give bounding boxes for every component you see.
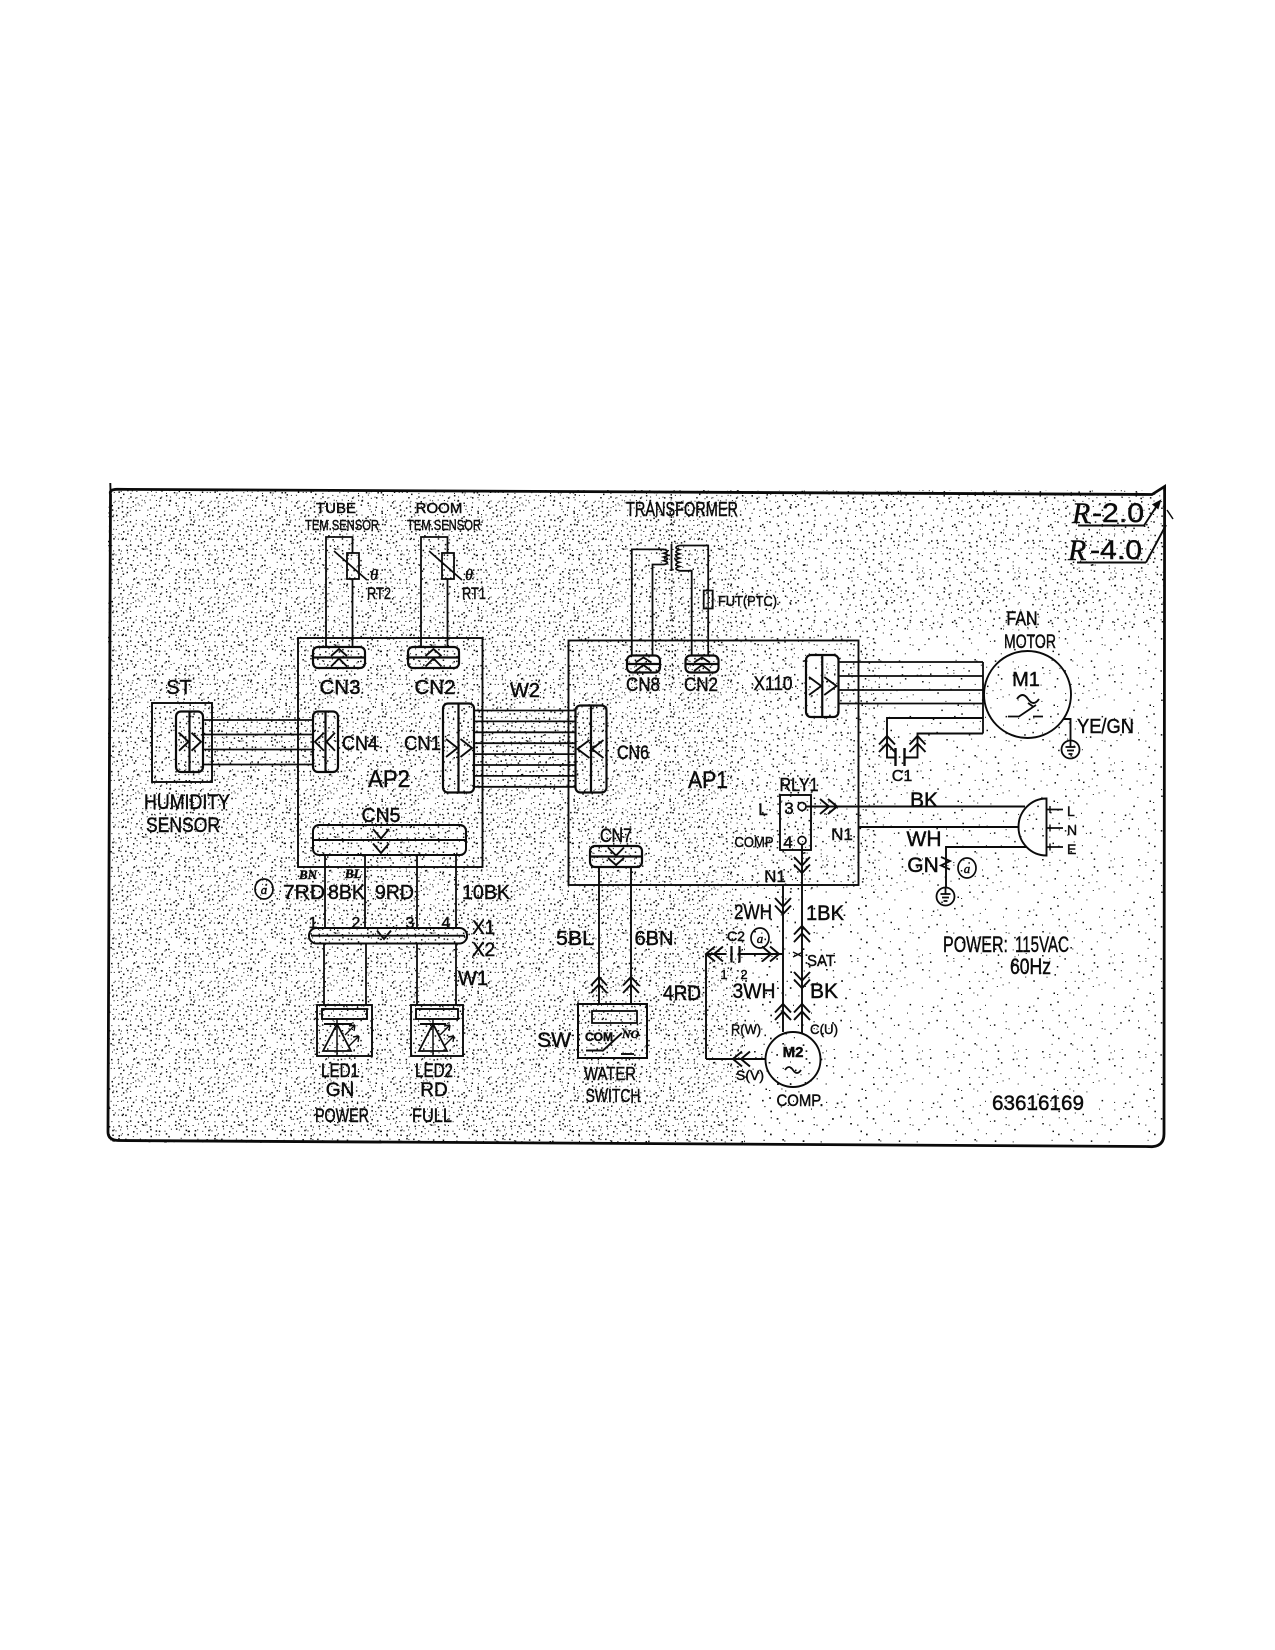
svg-text:AP1: AP1 bbox=[688, 767, 728, 794]
svg-text:TRANSFORMER: TRANSFORMER bbox=[626, 499, 738, 521]
svg-text:FUT(PTC): FUT(PTC) bbox=[718, 593, 777, 610]
svg-text:CN5: CN5 bbox=[362, 805, 401, 827]
svg-text:SW: SW bbox=[537, 1029, 571, 1052]
humidity sensor ST bbox=[144, 677, 230, 837]
svg-text:1: 1 bbox=[720, 967, 727, 982]
svg-text:COMP.: COMP. bbox=[777, 1091, 824, 1110]
text 63616169 bbox=[992, 1092, 1084, 1115]
svg-text:COMP: COMP bbox=[735, 834, 774, 851]
svg-text:X1: X1 bbox=[472, 918, 495, 939]
capacitor C2 bbox=[706, 928, 783, 982]
svg-text:60Hz: 60Hz bbox=[1010, 954, 1051, 979]
svg-text:POWER:: POWER: bbox=[943, 932, 1008, 957]
svg-text:RT2: RT2 bbox=[367, 584, 391, 603]
note R-4.0 bbox=[1067, 510, 1173, 567]
svg-text:FAN: FAN bbox=[1007, 609, 1038, 630]
LED1 GN POWER bbox=[315, 1005, 372, 1127]
wire 5BL bbox=[556, 867, 607, 1004]
connector CN5 bbox=[313, 805, 466, 855]
svg-text:TEM.SENSOR: TEM.SENSOR bbox=[305, 517, 379, 534]
svg-text:COM: COM bbox=[585, 1030, 613, 1044]
svg-text:LED1: LED1 bbox=[321, 1061, 359, 1082]
svg-text:a: a bbox=[261, 882, 268, 897]
wire harness W2 CN1 to CN6 bbox=[474, 680, 575, 787]
svg-text:θ: θ bbox=[370, 567, 378, 584]
tube temp sensor RT2 bbox=[305, 500, 391, 647]
svg-text:L: L bbox=[1067, 803, 1075, 819]
svg-text:2: 2 bbox=[740, 967, 747, 982]
svg-text:RD: RD bbox=[420, 1080, 447, 1101]
svg-text:N: N bbox=[1067, 822, 1077, 838]
svg-text:4RD: 4RD bbox=[663, 982, 701, 1005]
svg-text:POWER: POWER bbox=[315, 1106, 369, 1127]
LED2 RD FULL bbox=[411, 1005, 463, 1127]
connector CN2 AP2 bbox=[408, 647, 459, 699]
svg-text:10BK: 10BK bbox=[462, 882, 511, 904]
svg-text:L: L bbox=[758, 800, 767, 819]
svg-text:CN2: CN2 bbox=[415, 677, 456, 699]
svg-text:4: 4 bbox=[442, 915, 451, 932]
wire BK relay to plug bbox=[806, 789, 1025, 814]
svg-text:BN: BN bbox=[298, 867, 318, 882]
svg-text:CN4: CN4 bbox=[342, 733, 378, 755]
svg-text:4: 4 bbox=[783, 833, 792, 852]
fan motor M1 bbox=[984, 609, 1071, 738]
svg-text:θ: θ bbox=[465, 567, 473, 584]
connector CN7 bbox=[590, 826, 642, 867]
svg-text:AP2: AP2 bbox=[368, 766, 410, 793]
transformer T1 bbox=[626, 499, 738, 655]
svg-text:BL: BL bbox=[344, 866, 362, 881]
wire 2WH bbox=[731, 867, 791, 1037]
connector CN1 bbox=[404, 704, 474, 793]
connector CN2 AP1 bbox=[684, 656, 719, 697]
compressor M2 bbox=[766, 1032, 824, 1110]
wire 4RD S(V) bbox=[663, 954, 766, 1083]
svg-text:TUBE: TUBE bbox=[316, 500, 356, 517]
connector X1 X2 bbox=[309, 918, 495, 961]
svg-text:MOTOR: MOTOR bbox=[1004, 632, 1056, 653]
svg-text:SAT: SAT bbox=[807, 953, 835, 970]
connector CN4 bbox=[313, 712, 378, 773]
svg-text:a: a bbox=[964, 861, 971, 876]
svg-text:CN6: CN6 bbox=[617, 743, 649, 764]
svg-text:3WH: 3WH bbox=[733, 980, 776, 1003]
svg-text:C1: C1 bbox=[892, 768, 913, 785]
svg-text:X110: X110 bbox=[754, 674, 793, 695]
svg-text:GN: GN bbox=[326, 1080, 355, 1101]
svg-text:W1: W1 bbox=[458, 968, 488, 990]
svg-text:3: 3 bbox=[406, 915, 415, 932]
svg-text:NO: NO bbox=[621, 1027, 640, 1041]
svg-text:SWITCH: SWITCH bbox=[586, 1086, 641, 1106]
ground YE/GN bbox=[1062, 716, 1135, 759]
svg-text:R(W): R(W) bbox=[731, 1021, 761, 1037]
svg-text:M1: M1 bbox=[1012, 669, 1040, 691]
wire X110 to fan motor bbox=[839, 662, 984, 734]
svg-text:6BN: 6BN bbox=[635, 928, 674, 950]
svg-text:E: E bbox=[1067, 841, 1076, 857]
relay RLY1 bbox=[735, 775, 819, 852]
svg-text:5BL: 5BL bbox=[556, 928, 594, 950]
svg-text:CN8: CN8 bbox=[626, 675, 660, 696]
svg-text:C(U): C(U) bbox=[810, 1021, 838, 1037]
svg-text:ROOM: ROOM bbox=[416, 500, 463, 517]
svg-text:S(V): S(V) bbox=[736, 1067, 764, 1083]
wire N1 to plug bbox=[831, 825, 1019, 851]
svg-text:ST: ST bbox=[166, 677, 192, 699]
svg-text:C2: C2 bbox=[727, 928, 745, 944]
svg-text:CN7: CN7 bbox=[600, 826, 632, 847]
svg-text:X2: X2 bbox=[472, 940, 495, 961]
fuse FUT(PTC) bbox=[704, 591, 777, 611]
svg-text:LED2: LED2 bbox=[415, 1061, 453, 1082]
wire 6BN bbox=[623, 867, 674, 1004]
wire 1BK bbox=[793, 845, 844, 1038]
svg-text:WH: WH bbox=[907, 828, 942, 851]
svg-text:2: 2 bbox=[352, 915, 361, 932]
svg-text:HUMIDITY: HUMIDITY bbox=[144, 791, 230, 814]
svg-text:TEM.SENSOR: TEM.SENSOR bbox=[407, 517, 481, 534]
svg-text:a: a bbox=[757, 931, 764, 946]
svg-text:YE/GN: YE/GN bbox=[1077, 716, 1134, 738]
capacitor C1 bbox=[879, 718, 983, 785]
svg-text:-4.0: -4.0 bbox=[1090, 535, 1142, 565]
note R-2.0 bbox=[1071, 497, 1161, 530]
text POWER 115VAC 60Hz bbox=[943, 932, 1069, 979]
svg-text:SENSOR: SENSOR bbox=[146, 814, 220, 837]
svg-text:M2: M2 bbox=[783, 1044, 804, 1061]
connector X110 bbox=[754, 655, 839, 717]
svg-text:7RD: 7RD bbox=[283, 882, 325, 904]
svg-text:RT1: RT1 bbox=[462, 584, 486, 603]
connector CN6 bbox=[576, 706, 650, 793]
board AP1 bbox=[569, 641, 859, 886]
svg-text:FULL: FULL bbox=[412, 1106, 452, 1127]
power plug bbox=[1019, 799, 1078, 858]
svg-text:8BK: 8BK bbox=[328, 882, 366, 904]
svg-text:CN3: CN3 bbox=[320, 677, 361, 699]
svg-text:3: 3 bbox=[784, 799, 793, 818]
connector CN3 bbox=[313, 647, 365, 699]
connector CN8 bbox=[626, 656, 660, 697]
svg-text:BK: BK bbox=[910, 789, 938, 812]
svg-text:WATER: WATER bbox=[584, 1064, 636, 1084]
wire harness CN5 to X1 bbox=[255, 855, 511, 932]
wire ST to CN4 bbox=[203, 720, 313, 765]
wire GN and ground bbox=[907, 847, 1026, 906]
svg-text:-2.0: -2.0 bbox=[1092, 498, 1144, 528]
board AP2 bbox=[298, 638, 483, 867]
svg-text:CN2: CN2 bbox=[684, 675, 718, 696]
room temp sensor RT1 bbox=[407, 500, 486, 647]
svg-text:W2: W2 bbox=[510, 680, 540, 702]
svg-text:RLY1: RLY1 bbox=[780, 775, 819, 795]
svg-text:GN: GN bbox=[907, 854, 939, 877]
svg-text:1BK: 1BK bbox=[806, 902, 844, 925]
svg-text:N1: N1 bbox=[831, 825, 853, 844]
svg-text:9RD: 9RD bbox=[375, 882, 414, 904]
svg-text:N1: N1 bbox=[764, 867, 786, 886]
svg-text:2WH: 2WH bbox=[734, 901, 772, 924]
svg-text:BK: BK bbox=[810, 980, 838, 1003]
svg-text:63616169: 63616169 bbox=[992, 1092, 1084, 1115]
wire W1 LEDs bbox=[324, 944, 488, 1006]
water switch SW bbox=[537, 1004, 647, 1106]
svg-text:CN1: CN1 bbox=[404, 733, 441, 755]
